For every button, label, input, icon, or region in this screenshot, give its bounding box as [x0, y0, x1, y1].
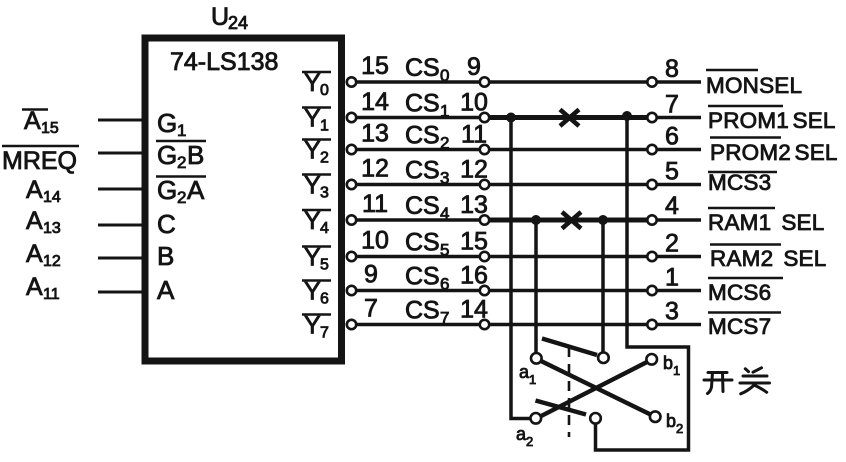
svg-text:CS: CS	[405, 297, 440, 325]
svg-text:12: 12	[43, 253, 61, 270]
svg-text:1: 1	[673, 363, 680, 378]
svg-text:14: 14	[460, 296, 488, 324]
svg-text:6: 6	[320, 291, 329, 308]
svg-text:Y: Y	[304, 105, 321, 133]
svg-text:3: 3	[320, 185, 329, 202]
svg-text:15: 15	[361, 52, 389, 80]
svg-text:7: 7	[665, 91, 679, 119]
svg-text:7: 7	[440, 309, 449, 328]
svg-text:14: 14	[361, 88, 389, 116]
svg-text:CS: CS	[405, 263, 440, 291]
svg-text:MCS3: MCS3	[708, 170, 771, 195]
svg-text:A: A	[26, 207, 43, 235]
svg-text:b: b	[663, 353, 673, 373]
svg-text:12: 12	[460, 156, 488, 184]
svg-text:CS: CS	[405, 229, 440, 257]
svg-text:4: 4	[665, 192, 679, 220]
svg-text:Y: Y	[304, 278, 321, 306]
svg-text:A: A	[26, 176, 43, 204]
svg-text:B: B	[187, 140, 204, 170]
svg-text:5: 5	[440, 241, 449, 260]
svg-text:MCS7: MCS7	[708, 314, 771, 339]
svg-text:MONSEL: MONSEL	[706, 73, 802, 98]
svg-text:Y: Y	[304, 207, 321, 235]
svg-text:13: 13	[460, 191, 488, 219]
svg-text:14: 14	[43, 189, 61, 206]
svg-text:5: 5	[320, 257, 329, 274]
svg-text:7: 7	[320, 325, 329, 342]
svg-text:G: G	[157, 108, 177, 138]
svg-text:2: 2	[440, 134, 449, 153]
svg-text:74-LS138: 74-LS138	[170, 48, 278, 76]
svg-text:1: 1	[177, 121, 186, 140]
svg-text:15: 15	[41, 120, 59, 137]
svg-text:16: 16	[460, 262, 488, 290]
svg-text:13: 13	[361, 120, 389, 148]
svg-text:MCS6: MCS6	[708, 280, 771, 305]
svg-text:1: 1	[320, 118, 329, 135]
svg-text:CS: CS	[405, 54, 440, 82]
svg-text:Y: Y	[304, 244, 321, 272]
svg-text:2: 2	[526, 434, 533, 449]
svg-text:10: 10	[460, 89, 488, 117]
svg-text:CS: CS	[405, 90, 440, 118]
svg-text:7: 7	[364, 295, 378, 323]
svg-text:RAM2SEL: RAM2SEL	[710, 246, 826, 271]
svg-text:Y: Y	[304, 69, 321, 97]
svg-text:Y: Y	[304, 172, 321, 200]
svg-text:4: 4	[440, 204, 449, 223]
svg-text:PROM2SEL: PROM2SEL	[710, 140, 838, 165]
svg-text:CS: CS	[405, 192, 440, 220]
svg-text:2: 2	[676, 421, 683, 436]
svg-text:3: 3	[440, 169, 449, 188]
svg-text:C: C	[157, 209, 176, 239]
svg-text:PROM1SEL: PROM1SEL	[708, 108, 836, 133]
svg-text:B: B	[157, 241, 174, 271]
svg-text:A: A	[157, 275, 175, 305]
svg-text:24: 24	[228, 13, 248, 33]
svg-text:CS: CS	[405, 157, 440, 185]
svg-text:11: 11	[461, 121, 487, 149]
svg-text:10: 10	[361, 227, 389, 255]
svg-text:2: 2	[177, 153, 186, 172]
svg-text:2: 2	[320, 150, 329, 167]
svg-text:4: 4	[320, 220, 329, 237]
svg-text:11: 11	[43, 286, 60, 303]
svg-text:Y: Y	[304, 312, 321, 340]
svg-text:2: 2	[665, 230, 679, 258]
svg-text:MREQ: MREQ	[2, 147, 77, 175]
svg-text:Y: Y	[304, 137, 321, 165]
svg-text:8: 8	[665, 55, 679, 83]
svg-text:1: 1	[440, 102, 449, 121]
svg-text:1: 1	[665, 264, 679, 292]
svg-text:A: A	[26, 273, 43, 301]
svg-text:1: 1	[529, 372, 536, 387]
svg-text:9: 9	[467, 53, 481, 81]
svg-text:9: 9	[364, 261, 378, 289]
svg-text:15: 15	[460, 228, 488, 256]
svg-text:6: 6	[440, 275, 449, 294]
svg-text:U: U	[211, 3, 229, 31]
svg-text:3: 3	[665, 298, 679, 326]
svg-text:0: 0	[440, 66, 449, 85]
svg-text:G: G	[157, 175, 177, 205]
svg-text:0: 0	[320, 82, 329, 99]
svg-text:A: A	[187, 175, 205, 205]
svg-text:6: 6	[665, 123, 679, 151]
svg-text:13: 13	[43, 220, 61, 237]
svg-text:CS: CS	[405, 122, 440, 150]
svg-text:RAM1SEL: RAM1SEL	[708, 210, 824, 235]
svg-text:G: G	[157, 140, 177, 170]
svg-text:2: 2	[177, 188, 186, 207]
svg-text:11: 11	[362, 190, 388, 218]
svg-text:5: 5	[665, 158, 679, 186]
svg-text:A: A	[26, 240, 43, 268]
svg-text:A: A	[24, 107, 41, 135]
svg-text:b: b	[666, 411, 676, 431]
svg-text:12: 12	[361, 155, 389, 183]
